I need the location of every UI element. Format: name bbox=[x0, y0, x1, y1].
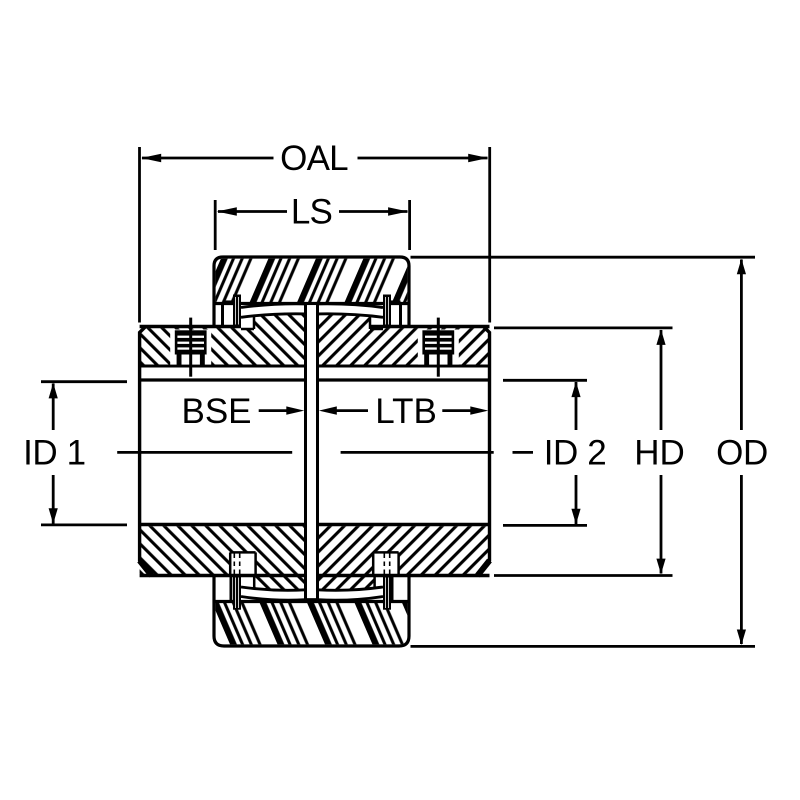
svg-text:BSE: BSE bbox=[181, 392, 251, 431]
svg-text:OAL: OAL bbox=[280, 139, 348, 178]
svg-text:OD: OD bbox=[716, 434, 768, 473]
svg-text:LS: LS bbox=[291, 193, 332, 232]
svg-text:LTB: LTB bbox=[375, 392, 437, 431]
svg-text:ID 1: ID 1 bbox=[23, 434, 86, 473]
svg-text:ID 2: ID 2 bbox=[544, 434, 607, 473]
svg-text:HD: HD bbox=[634, 434, 685, 473]
